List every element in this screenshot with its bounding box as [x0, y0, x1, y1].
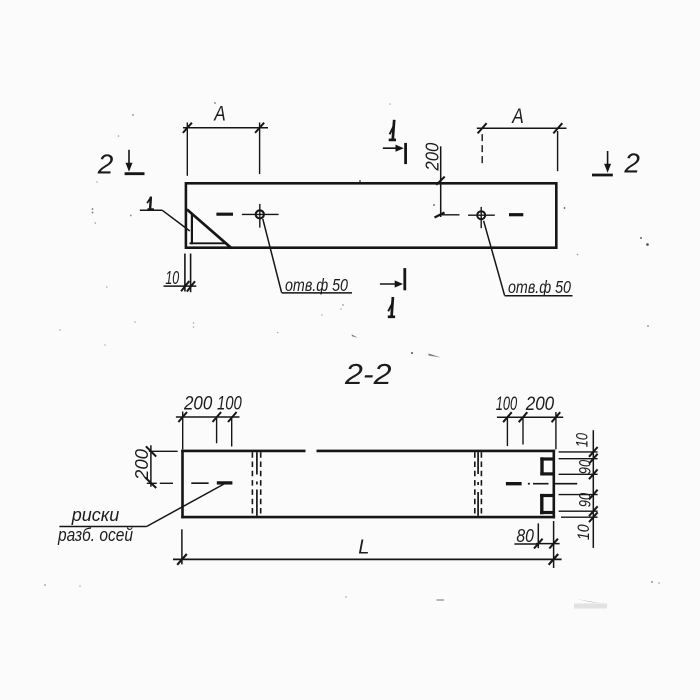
- svg-text:2: 2: [623, 147, 640, 178]
- svg-text:A: A: [511, 104, 524, 128]
- svg-text:90: 90: [576, 459, 594, 474]
- svg-text:2-2: 2-2: [344, 359, 392, 391]
- svg-text:80: 80: [516, 526, 534, 546]
- svg-text:200: 200: [183, 393, 213, 414]
- svg-text:2: 2: [97, 148, 114, 179]
- svg-text:A: A: [213, 102, 226, 126]
- svg-text:200: 200: [525, 394, 555, 415]
- svg-text:200: 200: [131, 448, 152, 481]
- svg-text:10: 10: [574, 432, 592, 447]
- svg-text:10: 10: [165, 268, 179, 288]
- svg-text:100: 100: [496, 394, 518, 415]
- svg-text:отв.ф 50: отв.ф 50: [508, 277, 571, 297]
- svg-text:10: 10: [575, 524, 593, 540]
- svg-text:L: L: [358, 537, 369, 559]
- svg-text:100: 100: [217, 393, 242, 414]
- svg-text:90: 90: [576, 492, 594, 507]
- svg-text:риски: риски: [71, 505, 120, 525]
- svg-text:разб. осей: разб. осей: [57, 525, 133, 545]
- svg-text:отв.ф 50: отв.ф 50: [285, 275, 348, 295]
- svg-text:200: 200: [422, 143, 442, 172]
